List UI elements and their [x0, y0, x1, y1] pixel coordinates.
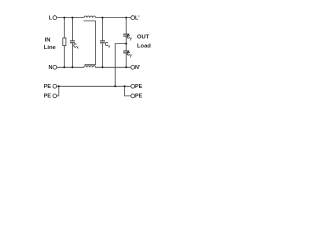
wire Cy midpoint to PE	[115, 44, 126, 87]
svg-text:x: x	[77, 45, 79, 49]
svg-text:OUT: OUT	[137, 35, 150, 41]
capacitor Cy1 value label	[127, 34, 132, 40]
capacitor Cx1	[70, 41, 75, 43]
svg-text:y: y	[130, 53, 132, 57]
capacitor Cx2	[100, 41, 105, 43]
terminal L'	[131, 15, 140, 21]
wire PE left stub	[57, 86, 59, 96]
wire PE rail	[57, 85, 131, 87]
capacitor Cy2 value label	[127, 51, 132, 57]
terminal N	[48, 65, 56, 71]
wire resistor branch	[63, 18, 65, 68]
svg-text:L: L	[49, 15, 53, 21]
svg-text:Line: Line	[44, 45, 57, 51]
choke L1 winding top	[84, 16, 96, 18]
svg-text:y: y	[130, 36, 132, 40]
wire Cx1 branch	[71, 18, 73, 68]
svg-text:PE: PE	[44, 84, 52, 90]
capacitor Cy2	[123, 51, 129, 53]
terminal N'	[131, 65, 140, 71]
junction dots	[58, 17, 127, 88]
svg-text:Load: Load	[137, 44, 151, 50]
choke L1 core link	[84, 21, 96, 65]
node IN Line label	[44, 38, 57, 51]
svg-text:PE: PE	[44, 94, 52, 100]
svg-text:L': L'	[135, 15, 140, 21]
capacitor Cx2 value label	[105, 42, 110, 49]
svg-text:PE: PE	[135, 94, 143, 100]
terminal L	[49, 15, 57, 21]
terminal PE right top	[131, 84, 143, 90]
resistor R	[63, 38, 66, 46]
wire Cx2 branch	[102, 18, 104, 68]
wire top L line	[57, 17, 131, 19]
wire PE right elbow	[125, 86, 131, 96]
capacitor Cx1 value label	[73, 44, 78, 50]
svg-text:N: N	[48, 65, 52, 71]
svg-text:IN: IN	[45, 38, 51, 44]
wire bottom N line	[57, 66, 131, 68]
terminal PE right bottom	[131, 94, 143, 100]
terminal PE left top	[44, 84, 57, 90]
node OUT Load label	[137, 35, 151, 50]
capacitor Cy1	[123, 34, 129, 36]
terminal PE left bottom	[44, 94, 57, 100]
svg-text:N': N'	[135, 65, 140, 71]
svg-text:PE: PE	[135, 84, 143, 90]
svg-text:x: x	[108, 45, 110, 49]
choke L1 winding bottom	[84, 66, 96, 68]
wire Cy branch	[125, 18, 127, 68]
